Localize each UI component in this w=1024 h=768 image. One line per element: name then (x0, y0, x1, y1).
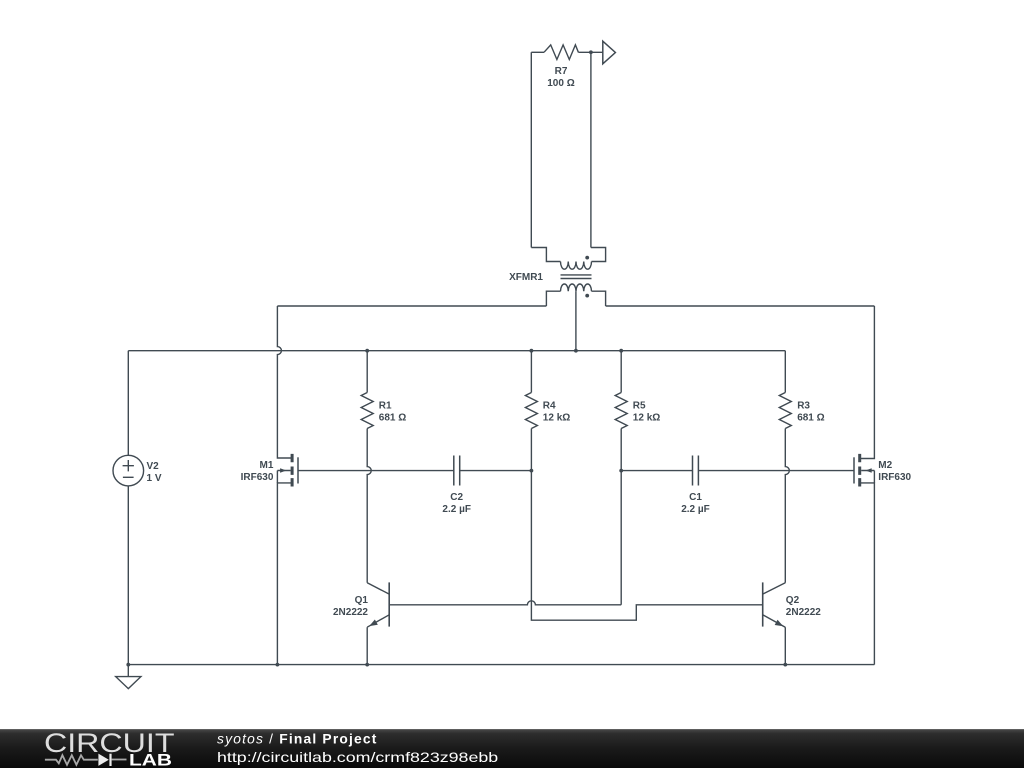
wire top rail left (277, 305, 546, 307)
transistor Q2 bar (762, 582, 764, 626)
transistor Q1 collector diagonal (367, 583, 389, 594)
wire R7 right lead (578, 51, 602, 53)
junction dot Q2 emitter rail (783, 663, 787, 667)
wire R7 loop left vertical (530, 52, 532, 247)
svg-text:681 Ω: 681 Ω (379, 412, 406, 423)
transformer XFMR1 secondary coil (561, 284, 592, 291)
svg-text:12 kΩ: 12 kΩ (633, 412, 660, 423)
wire C2 right lead (460, 470, 532, 472)
svg-text:IRF630: IRF630 (241, 472, 274, 483)
wire M1 source (277, 483, 292, 665)
wire R1 top lead (366, 351, 368, 393)
wire primary top left step (531, 248, 560, 262)
svg-text:IRF630: IRF630 (878, 472, 911, 483)
wire supply bus (128, 350, 785, 352)
wire Q1 base with hop (389, 601, 621, 605)
capacitor C1 (693, 456, 699, 486)
wire ground rail (128, 664, 874, 666)
wire R3 top lead (784, 351, 786, 393)
resistor R1 (361, 393, 373, 429)
wire M1 gate to C2 (298, 470, 454, 472)
resistor R4 (525, 393, 537, 429)
junction dot center tap (574, 349, 578, 353)
capacitor C2 (454, 456, 460, 486)
svg-text:R3: R3 (797, 401, 810, 412)
svg-text:XFMR1: XFMR1 (509, 272, 543, 283)
node dot output (589, 50, 593, 54)
wire center tap (575, 291, 577, 351)
transformer XFMR1 primary coil (561, 262, 592, 270)
svg-text:2N2222: 2N2222 (333, 607, 368, 618)
wire M1 drain with hop over bus (277, 306, 291, 458)
junction dot R4 top (530, 349, 534, 353)
wire R7 loop right vertical (590, 52, 592, 247)
svg-text:1 V: 1 V (147, 473, 162, 484)
svg-text:681 Ω: 681 Ω (797, 412, 824, 423)
wire Q1 emitter lead (366, 627, 368, 664)
voltage source V2 (113, 455, 144, 486)
svg-text:V2: V2 (147, 461, 160, 472)
wire R1 bottom to Q1 collector with hop (367, 429, 371, 583)
transistor Q2 emitter diagonal (763, 615, 786, 627)
mosfet M1 channel bars (291, 454, 294, 487)
transformer XFMR1 core (561, 275, 592, 279)
transistor Q2 emitter arrow (775, 620, 785, 629)
mosfet M1 body arrow (277, 471, 290, 483)
junction dot ground (126, 663, 130, 667)
transistor Q1 emitter arrow (368, 619, 378, 628)
wire R7 left lead (531, 51, 544, 53)
svg-text:2.2 µF: 2.2 µF (442, 504, 471, 515)
mosfet M1 gate bar (297, 457, 299, 483)
wire cross-couple R4 node to Q2 base (531, 471, 762, 621)
output flag terminal (603, 41, 616, 64)
wire V2 bottom lead (127, 486, 129, 665)
V2 plus sign (123, 460, 134, 471)
transformer XFMR1 primary phase dot (585, 256, 589, 260)
resistor R3 (779, 393, 791, 429)
transformer XFMR1 secondary phase dot (585, 294, 589, 298)
wire R3 bottom to Q2 collector with hop (785, 429, 789, 583)
svg-text:100 Ω: 100 Ω (547, 78, 574, 89)
wire secondary left step (546, 291, 560, 306)
svg-text:C2: C2 (450, 492, 463, 503)
svg-text:12 kΩ: 12 kΩ (543, 412, 570, 423)
footer bar (0, 729, 1024, 768)
wire secondary right step (592, 291, 606, 306)
mosfet M2 body arrow (861, 471, 874, 483)
svg-text:C1: C1 (689, 492, 702, 503)
V2 minus sign (123, 476, 134, 478)
resistor R7 (544, 45, 578, 60)
junction dot R5 top (619, 349, 623, 353)
transistor Q2 collector diagonal (763, 583, 786, 594)
svg-text:2.2 µF: 2.2 µF (681, 504, 710, 515)
svg-text:Q2: Q2 (786, 595, 800, 606)
svg-text:M1: M1 (259, 460, 273, 471)
junction dot Q1 emitter rail (365, 663, 369, 667)
svg-text:Q1: Q1 (355, 595, 369, 606)
junction dot R1 top (365, 349, 369, 353)
wire C1 right lead to M2 gate (698, 470, 854, 472)
transistor Q1 bar (388, 582, 390, 626)
mosfet M2 gate bar (853, 457, 855, 483)
resistor R5 (615, 393, 627, 429)
wire R5 bottom lead (620, 429, 622, 471)
mosfet M2 drain (860, 306, 875, 459)
wire R5 node to Q1 base (620, 471, 622, 605)
mosfet M2 channel bars (858, 454, 861, 487)
svg-text:2N2222: 2N2222 (786, 607, 821, 618)
svg-text:M2: M2 (878, 460, 892, 471)
transistor Q1 emitter diagonal (367, 615, 389, 627)
wire C1 left lead (621, 470, 692, 472)
wire R4 top lead (530, 351, 532, 393)
wire top rail right (606, 305, 875, 307)
svg-text:R4: R4 (543, 401, 556, 412)
junction dot R5-C1 (619, 469, 623, 473)
wire V2 top lead (127, 351, 129, 456)
ground symbol (116, 665, 141, 689)
wire Q2 emitter lead (784, 627, 786, 664)
logo resistor-diode squiggle (45, 754, 127, 766)
junction dot C2-R4 (530, 469, 534, 473)
svg-text:http://circuitlab.com/crmf823z: http://circuitlab.com/crmf823z98ebb (217, 750, 499, 765)
junction dot M1 source rail (276, 663, 280, 667)
wire primary top right step (591, 248, 606, 262)
svg-text:R5: R5 (633, 401, 646, 412)
svg-text:R1: R1 (379, 401, 392, 412)
wire M2 source (860, 483, 875, 665)
wire R5 top lead (620, 351, 622, 393)
svg-text:LAB: LAB (129, 750, 172, 768)
wire R4 bottom lead (530, 429, 532, 471)
svg-text:syotos / Final Project: syotos / Final Project (217, 732, 378, 747)
svg-text:R7: R7 (555, 66, 568, 77)
